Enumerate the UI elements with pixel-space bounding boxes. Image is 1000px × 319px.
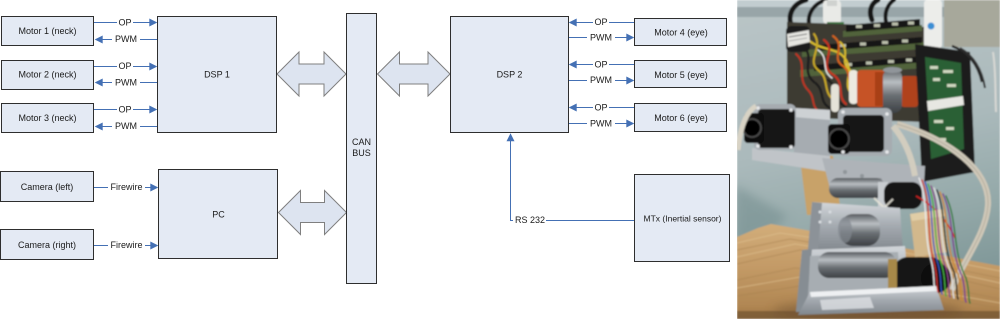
- svg-text:Motor 1 (neck): Motor 1 (neck): [18, 26, 76, 36]
- svg-text:OP: OP: [118, 61, 131, 71]
- svg-text:Camera (left): Camera (left): [21, 182, 74, 192]
- svg-text:Motor 3 (neck): Motor 3 (neck): [18, 113, 76, 123]
- svg-text:OP: OP: [118, 105, 131, 115]
- svg-text:OP: OP: [594, 17, 607, 27]
- svg-text:OP: OP: [594, 60, 607, 70]
- svg-text:BUS: BUS: [352, 148, 371, 158]
- svg-text:MTx (Inertial sensor): MTx (Inertial sensor): [644, 214, 722, 224]
- svg-text:PWM: PWM: [590, 33, 612, 43]
- svg-text:PWM: PWM: [115, 34, 137, 44]
- svg-text:PWM: PWM: [590, 119, 612, 129]
- svg-text:PWM: PWM: [115, 121, 137, 131]
- svg-text:DSP 1: DSP 1: [204, 70, 230, 80]
- svg-text:CAN: CAN: [352, 137, 371, 147]
- svg-text:PWM: PWM: [115, 78, 137, 88]
- svg-text:RS 232: RS 232: [515, 215, 545, 225]
- svg-text:PWM: PWM: [590, 75, 612, 85]
- svg-text:Firewire: Firewire: [110, 240, 142, 250]
- svg-text:Motor 5 (eye): Motor 5 (eye): [654, 70, 708, 80]
- svg-text:Camera (right): Camera (right): [18, 240, 76, 250]
- svg-text:Firewire: Firewire: [110, 182, 142, 192]
- svg-text:DSP 2: DSP 2: [497, 70, 523, 80]
- svg-text:Motor 4 (eye): Motor 4 (eye): [654, 28, 708, 38]
- svg-text:Motor 2 (neck): Motor 2 (neck): [18, 70, 76, 80]
- svg-text:Motor 6 (eye): Motor 6 (eye): [654, 113, 708, 123]
- svg-text:PC: PC: [212, 210, 225, 220]
- svg-text:OP: OP: [118, 18, 131, 28]
- svg-text:OP: OP: [594, 103, 607, 113]
